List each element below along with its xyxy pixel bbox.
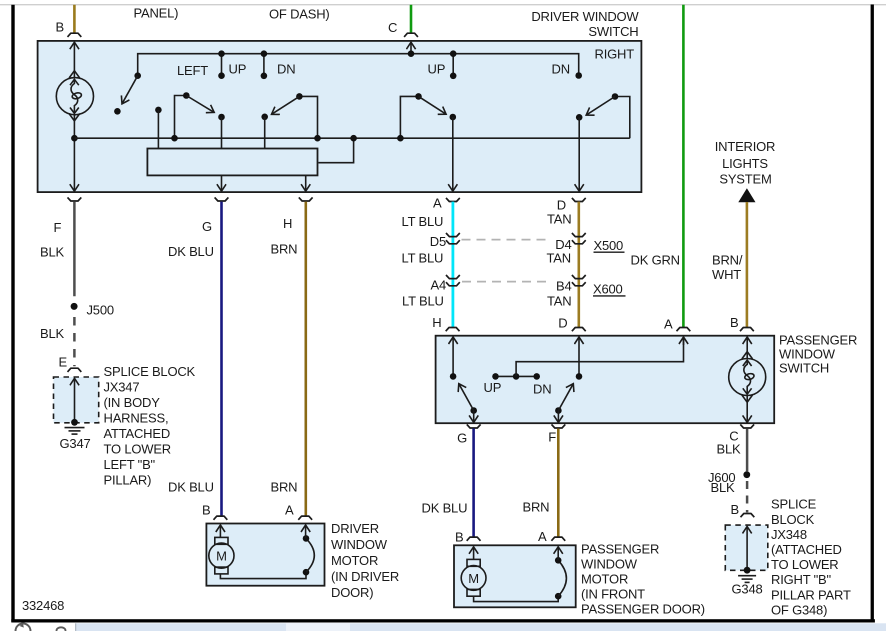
contact for S5 to pin D [576, 114, 583, 121]
dashed tie line X600 [462, 281, 548, 283]
svg-text:H: H [283, 216, 292, 231]
wire BRN/WHT [746, 202, 749, 328]
svg-text:F: F [548, 430, 556, 445]
svg-text:INTERIOR: INTERIOR [715, 139, 776, 154]
svg-text:C: C [388, 20, 397, 35]
wire DK GRN into pin C [410, 5, 413, 34]
svg-text:LIGHTS: LIGHTS [722, 156, 768, 171]
passenger window motor box M2 [454, 545, 576, 607]
wire DK GRN vertical [682, 5, 685, 328]
svg-text:DN: DN [552, 62, 570, 77]
svg-text:332468: 332468 [22, 598, 64, 613]
svg-text:B: B [730, 315, 738, 330]
pass pin B entry arrow [746, 337, 748, 359]
svg-text:DK BLU: DK BLU [422, 501, 468, 516]
svg-text:SYSTEM: SYSTEM [719, 172, 771, 187]
off-page arrow to interior lights [738, 188, 755, 202]
motor B entry arrow [473, 547, 475, 560]
svg-text:DK GRN: DK GRN [631, 253, 680, 268]
svg-text:PANEL): PANEL) [134, 6, 179, 21]
pass pin H entry [452, 337, 454, 376]
svg-text:TAN: TAN [547, 212, 571, 227]
contact for S4 to pin A [450, 114, 457, 121]
svg-text:PASSENGER: PASSENGER [581, 542, 659, 557]
svg-text:A: A [538, 529, 547, 544]
node: C feed junction [408, 50, 415, 57]
wire BLK dashed to splice [73, 317, 76, 366]
svg-text:SPLICE BLOCK: SPLICE BLOCK [104, 364, 196, 379]
svg-text:BRN: BRN [271, 242, 298, 257]
brush arc [306, 538, 314, 572]
svg-text:OF DASH): OF DASH) [269, 7, 330, 22]
contact for S3 [261, 114, 268, 121]
svg-text:B: B [56, 20, 64, 35]
connector cup at pin A [446, 198, 460, 202]
switch arm S3 (left window down) [299, 96, 317, 138]
switch arm S5 (right window down) [615, 97, 630, 139]
chevron below lamp [69, 114, 80, 121]
svg-text:BLOCK: BLOCK [771, 512, 815, 527]
svg-text:PASSENGER: PASSENGER [779, 333, 857, 348]
svg-text:BLK: BLK [40, 245, 65, 260]
svg-text:(ATTACHED: (ATTACHED [771, 542, 842, 557]
svg-text:LT BLU: LT BLU [402, 251, 444, 266]
switch arm S2 (left window up) [175, 96, 187, 139]
brush arc [558, 560, 566, 596]
contact for S1 [114, 108, 121, 115]
wire bus to resistor block [318, 138, 353, 163]
svg-text:LT BLU: LT BLU [402, 214, 444, 229]
pin B entry arrow [73, 42, 75, 78]
svg-text:DOOR): DOOR) [331, 585, 373, 600]
chevron on lamp feed [69, 71, 80, 78]
resistor output to pin H [305, 175, 307, 191]
svg-text:A: A [433, 196, 442, 211]
svg-text:DRIVER: DRIVER [331, 521, 379, 536]
svg-text:SWITCH: SWITCH [779, 361, 829, 376]
svg-text:WINDOW: WINDOW [331, 537, 388, 552]
svg-text:UP: UP [484, 380, 502, 395]
svg-text:JX348: JX348 [771, 527, 807, 542]
connector cup at pin D [572, 198, 586, 202]
wire lamp to pin F exit arrow [73, 115, 75, 191]
switch arm S1 (left lockout) [134, 72, 141, 79]
connector bridge at JX348 pin B [741, 514, 755, 518]
pass pin D entry [578, 337, 580, 376]
motor return wire [474, 596, 559, 601]
svg-text:B: B [202, 503, 210, 518]
connector bridge at pin B [68, 33, 82, 37]
ground G348 [738, 575, 756, 577]
resistor output to pin G [221, 175, 223, 191]
connector bridge at pass pin B [740, 328, 754, 332]
svg-text:LEFT "B": LEFT "B" [104, 457, 156, 472]
splice wire with arrow [746, 526, 748, 570]
connector bridge at drv motor pin B [214, 516, 228, 520]
svg-text:TO LOWER: TO LOWER [771, 557, 839, 572]
svg-text:PILLAR PART: PILLAR PART [771, 588, 851, 603]
svg-text:WINDOW: WINDOW [581, 557, 638, 572]
connector bridge at pin C [404, 33, 418, 37]
svg-text:A: A [285, 503, 294, 518]
connector bridge at JX347 pin E [68, 368, 82, 372]
motor return wire [220, 572, 306, 578]
svg-text:ATTACHED: ATTACHED [104, 426, 171, 441]
svg-text:HARNESS,: HARNESS, [104, 410, 169, 425]
contact stub DN (right) [575, 72, 582, 79]
svg-text:H: H [432, 315, 441, 330]
svg-text:WHT: WHT [712, 267, 741, 282]
contact stub DN (left) [263, 54, 265, 76]
svg-text:(IN DRIVER: (IN DRIVER [331, 569, 399, 584]
wire pass F BRN [557, 429, 560, 537]
pass pin C exit arrow [746, 396, 748, 423]
svg-text:JX347: JX347 [104, 379, 140, 394]
resistor block R1 [147, 149, 317, 176]
svg-text:OF G348): OF G348) [771, 603, 827, 618]
svg-text:BRN/: BRN/ [712, 253, 743, 268]
chevron below pass lamp [742, 395, 753, 402]
svg-text:SWITCH: SWITCH [588, 24, 638, 39]
connector cup at pin H [299, 197, 313, 201]
driver window switch box U1 [38, 41, 642, 192]
motor M2 symbol [467, 559, 480, 566]
connector bridge at pass motor pin A [551, 537, 565, 541]
node: lamp/bus junction [71, 135, 78, 142]
wire TAN into pin B [73, 5, 76, 34]
svg-text:BRN: BRN [523, 500, 550, 515]
junction J600 [743, 471, 750, 478]
svg-text:BLK: BLK [40, 326, 65, 341]
svg-text:G: G [202, 219, 212, 234]
toolbar icon [57, 627, 66, 631]
svg-text:DRIVER WINDOW: DRIVER WINDOW [531, 9, 639, 24]
toolbar icon rotate [16, 624, 31, 631]
in-line connector D5 on LT BLU [446, 233, 460, 237]
pass pin G exit arrow [473, 411, 475, 423]
contact for S2 [218, 114, 225, 121]
svg-text:F: F [54, 220, 62, 235]
feed from pass pin A [516, 338, 683, 377]
connector cup at pass pin C [740, 424, 754, 428]
svg-text:D5: D5 [430, 234, 446, 249]
svg-text:DK BLU: DK BLU [168, 480, 214, 495]
svg-text:MOTOR: MOTOR [331, 553, 378, 568]
pass switch arm S7 [555, 407, 562, 414]
svg-text:G348: G348 [732, 582, 763, 597]
svg-text:G347: G347 [60, 436, 91, 451]
svg-text:UP: UP [428, 62, 446, 77]
svg-text:WINDOW: WINDOW [779, 347, 836, 362]
svg-text:RIGHT: RIGHT [595, 47, 635, 62]
svg-text:LEFT: LEFT [177, 63, 208, 78]
svg-text:B: B [731, 502, 739, 517]
splice block JX347 [54, 377, 99, 423]
svg-text:PASSENGER DOOR): PASSENGER DOOR) [581, 602, 705, 617]
wire A LT BLU [451, 202, 454, 328]
spare contact to resistor [155, 107, 162, 114]
svg-text:DN: DN [277, 62, 295, 77]
svg-text:SPLICE: SPLICE [771, 497, 817, 512]
svg-text:B: B [455, 530, 463, 545]
svg-text:A: A [664, 317, 673, 332]
internal bus wire [74, 137, 629, 139]
connector bridge at pass pin D [572, 328, 586, 332]
svg-text:TAN: TAN [547, 251, 571, 266]
connector bridge at pass pin H [446, 328, 460, 332]
motor B entry arrow [219, 525, 221, 537]
connector cup at pin G [215, 197, 229, 201]
svg-text:DK BLU: DK BLU [168, 244, 214, 259]
bottom toolbar strip [76, 623, 886, 631]
svg-text:MOTOR: MOTOR [581, 572, 628, 587]
contact stub UP (left) [221, 54, 223, 76]
illumination lamp E1 [56, 78, 93, 115]
page left border [11, 5, 14, 622]
svg-text:E: E [59, 355, 68, 370]
motor M1 symbol [215, 537, 228, 544]
page bottom border [11, 619, 875, 622]
svg-text:(IN BODY: (IN BODY [104, 395, 161, 410]
splice block JX348 [725, 525, 768, 570]
wire BLK dashed to splice JX348 [746, 481, 749, 512]
passenger window switch box U2 [436, 336, 775, 424]
svg-text:A4: A4 [430, 278, 446, 293]
svg-text:PILLAR): PILLAR) [104, 472, 152, 487]
svg-text:BLK: BLK [711, 480, 736, 495]
chevron above pass lamp [742, 352, 753, 359]
UP/DN contact bar [496, 375, 537, 377]
wire F BLK solid [73, 202, 76, 297]
connector cup at pass pin G [467, 424, 481, 428]
svg-text:TAN: TAN [547, 294, 571, 309]
wire pass C BLK [746, 429, 749, 472]
svg-text:X500: X500 [594, 238, 624, 253]
svg-text:X600: X600 [593, 282, 623, 297]
svg-text:(IN FRONT: (IN FRONT [581, 587, 645, 602]
feed wire from pin C [138, 54, 579, 76]
svg-text:RIGHT "B": RIGHT "B" [771, 572, 832, 587]
svg-text:UP: UP [229, 62, 247, 77]
contact stub UP (right) [452, 54, 454, 76]
motor A entry arrow [557, 547, 559, 561]
driver window motor box M1 [206, 524, 324, 586]
junction J500 [71, 303, 78, 310]
page right border [871, 5, 874, 623]
svg-text:J500: J500 [87, 303, 114, 318]
svg-text:M: M [216, 549, 227, 564]
svg-text:BLK: BLK [717, 442, 742, 457]
in-line connector D4 on TAN [572, 233, 586, 237]
svg-text:M: M [468, 571, 479, 586]
connector bridge at pass pin A [677, 328, 691, 332]
connector cup at pin F [68, 197, 82, 201]
wire D TAN [577, 202, 580, 328]
in-line connector A4 on LT BLU [446, 275, 460, 279]
in-line connector B4 on TAN [572, 275, 586, 279]
switch arm S4 (right window up) [400, 96, 418, 138]
svg-text:D: D [558, 316, 567, 331]
ground G347 [65, 427, 85, 429]
wire pass G DK BLU [472, 429, 475, 537]
wire G DK BLU [220, 202, 223, 516]
connector bridge at drv motor pin A [298, 516, 312, 520]
svg-text:BRN: BRN [271, 480, 298, 495]
dashed tie line X500 [462, 239, 548, 241]
connector bridge at pass motor pin B [467, 537, 481, 541]
svg-text:LT BLU: LT BLU [402, 294, 444, 309]
svg-text:DN: DN [533, 382, 551, 397]
motor A entry arrow [305, 525, 307, 538]
svg-text:G: G [457, 431, 467, 446]
svg-text:D: D [557, 198, 566, 213]
illumination lamp E2 [729, 359, 766, 396]
pass pin F exit arrow [557, 411, 559, 423]
pin C entry arrow [410, 42, 412, 54]
top window edge line [0, 4, 886, 6]
connector cup at pass pin F [552, 424, 566, 428]
wire H BRN [304, 202, 307, 516]
svg-text:TO LOWER: TO LOWER [104, 441, 172, 456]
splice wire with arrow [74, 378, 76, 422]
pass switch arm S6 [470, 407, 477, 414]
svg-text:B4: B4 [556, 279, 572, 294]
